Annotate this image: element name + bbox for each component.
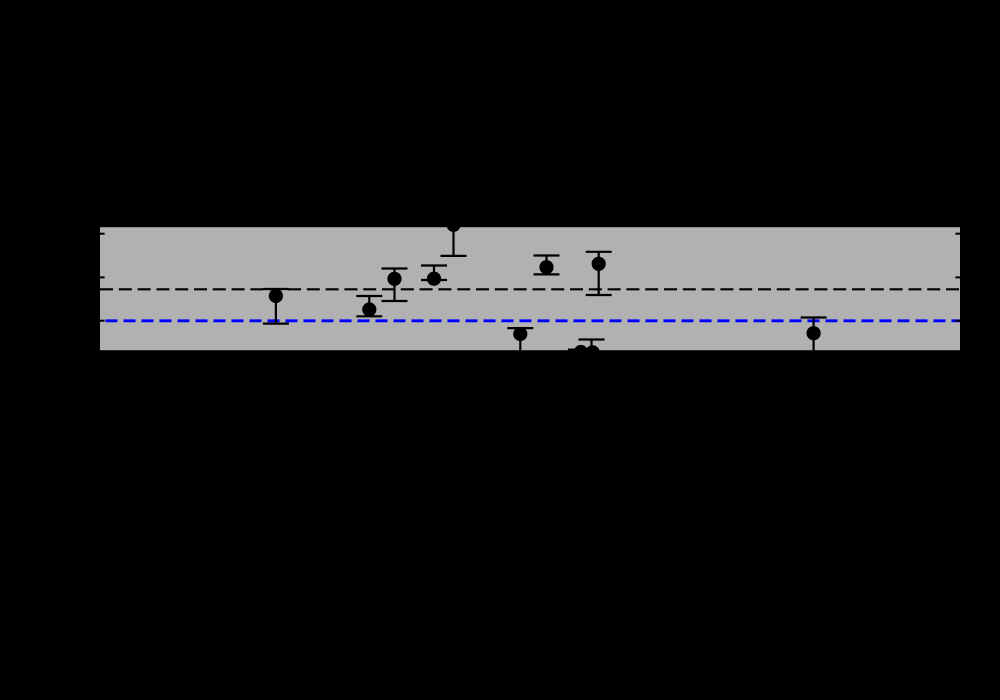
- y tick right 2: [955, 276, 960, 278]
- y tick right 1: [955, 233, 960, 235]
- y tick right 3: [955, 320, 960, 322]
- data point 4 with error bars: [421, 266, 447, 281]
- data point 10 at bottom edge with error bar: [579, 340, 605, 351]
- data point 6 with error bars: [534, 256, 560, 275]
- y tick left 3: [100, 320, 105, 322]
- black dashed reference line: [100, 288, 960, 290]
- data point 7 with error bars: [586, 252, 612, 295]
- y tick left 2: [100, 276, 105, 278]
- data point 8 with error bar (clipped at bottom): [507, 328, 533, 350]
- data point 5 with error bar (clipped at top): [441, 225, 467, 256]
- blue dashed reference line: [100, 319, 960, 322]
- data point 11 with error bar (clipped at bottom): [801, 318, 827, 351]
- data point 3 with error bars: [382, 269, 408, 302]
- data point 9 at bottom edge: [568, 349, 594, 351]
- data point 2 with error bars: [356, 296, 382, 316]
- y tick left 1: [100, 233, 105, 235]
- plot axes band: [100, 227, 960, 350]
- data point 1 with error bars: [263, 289, 289, 324]
